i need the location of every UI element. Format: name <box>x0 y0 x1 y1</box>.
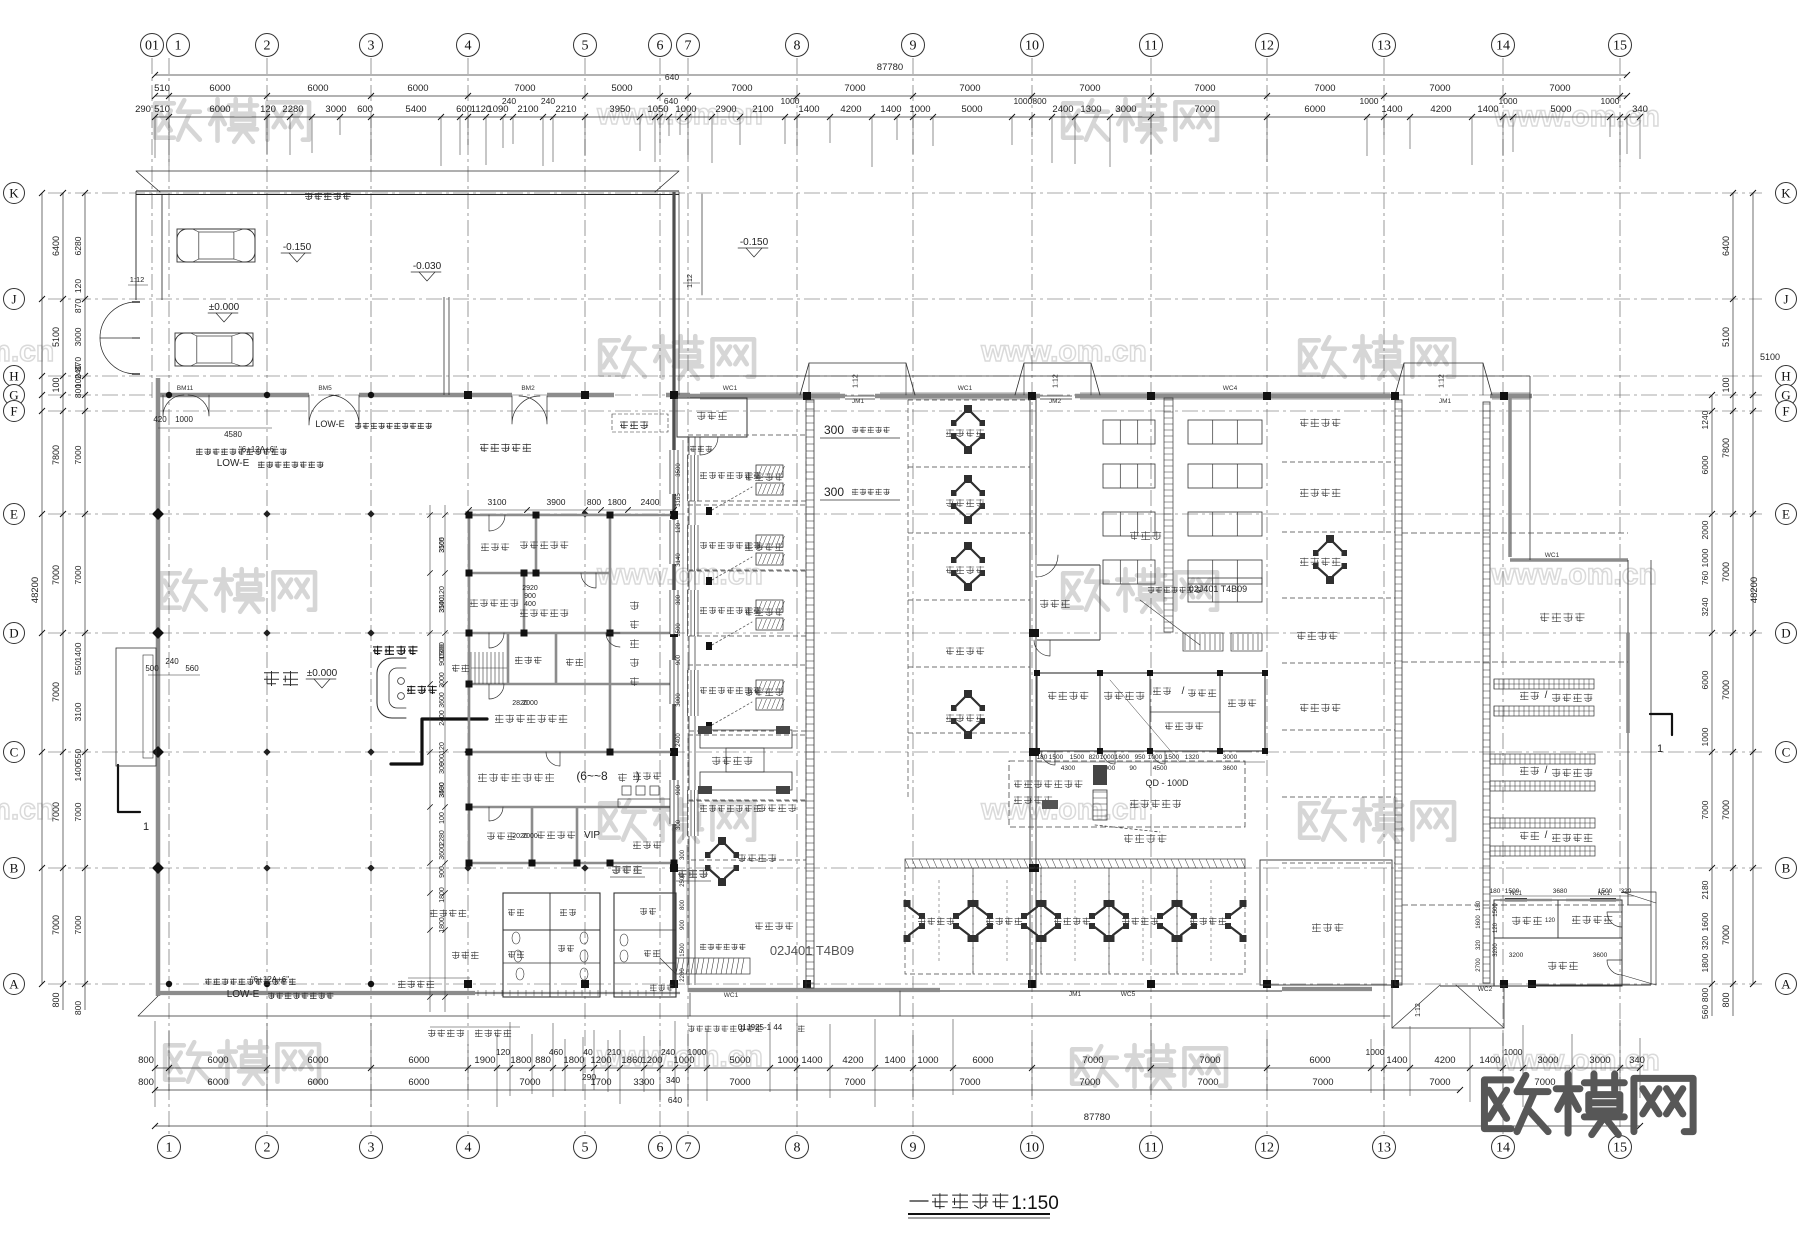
svg-text:VIP: VIP <box>584 830 600 841</box>
svg-text:180: 180 <box>1490 888 1501 895</box>
svg-text:6000: 6000 <box>1309 1055 1330 1066</box>
svg-text:4200: 4200 <box>1430 104 1451 115</box>
svg-text:2400: 2400 <box>676 733 682 747</box>
svg-text:6: 6 <box>657 1141 664 1156</box>
svg-text:3000: 3000 <box>1589 1055 1610 1066</box>
svg-text:JM1: JM1 <box>1069 991 1082 998</box>
svg-text:7000: 7000 <box>1079 83 1100 94</box>
svg-text:E: E <box>1782 507 1790 522</box>
svg-text:7000: 7000 <box>1721 800 1731 820</box>
svg-text:3200: 3200 <box>1509 952 1524 959</box>
svg-text:6400: 6400 <box>1721 236 1731 256</box>
svg-text:2500: 2500 <box>680 873 686 887</box>
svg-text:900: 900 <box>680 919 686 930</box>
svg-text:6000: 6000 <box>1700 455 1710 474</box>
svg-text:2000: 2000 <box>1700 520 1710 539</box>
svg-text:240: 240 <box>502 96 516 106</box>
svg-text:2200: 2200 <box>680 968 686 982</box>
svg-text:3000: 3000 <box>1537 1055 1558 1066</box>
svg-text:1000: 1000 <box>688 1047 707 1057</box>
svg-text:15: 15 <box>1613 1141 1627 1156</box>
svg-text:1500: 1500 <box>680 943 686 957</box>
svg-text:7000: 7000 <box>73 915 83 934</box>
svg-text:2400: 2400 <box>439 710 446 726</box>
svg-text:100: 100 <box>1721 377 1731 392</box>
svg-text:240: 240 <box>661 1047 675 1057</box>
svg-text:7000: 7000 <box>1721 680 1731 700</box>
svg-text:3600: 3600 <box>1593 952 1608 959</box>
svg-text:48200: 48200 <box>30 577 41 603</box>
svg-text:3200: 3200 <box>1493 943 1499 957</box>
svg-text:J: J <box>1783 292 1788 307</box>
svg-text:6000: 6000 <box>207 1077 228 1088</box>
svg-text:800: 800 <box>1721 992 1731 1007</box>
svg-text:14: 14 <box>1496 1141 1510 1156</box>
svg-text:550: 550 <box>73 661 83 675</box>
svg-text:510: 510 <box>154 83 170 94</box>
svg-text:6000: 6000 <box>1700 670 1710 689</box>
svg-text:760: 760 <box>1700 571 1710 585</box>
svg-text:3600: 3600 <box>439 692 446 708</box>
svg-text:1500: 1500 <box>1505 888 1520 895</box>
svg-text:QD - 100D: QD - 100D <box>1145 778 1189 788</box>
svg-text:1400: 1400 <box>1477 104 1498 115</box>
svg-text:400: 400 <box>524 601 536 608</box>
svg-text:2400: 2400 <box>1052 104 1073 115</box>
svg-text:A: A <box>9 977 19 992</box>
svg-text:460: 460 <box>549 1047 563 1057</box>
svg-text:7000: 7000 <box>73 445 83 464</box>
svg-text:6000: 6000 <box>407 83 428 94</box>
svg-text:87780: 87780 <box>1084 1112 1110 1123</box>
svg-text:1000: 1000 <box>1700 727 1710 746</box>
svg-text:300: 300 <box>824 423 844 437</box>
svg-text:800: 800 <box>73 1001 83 1015</box>
svg-text:/: / <box>1182 686 1185 697</box>
svg-text:7000: 7000 <box>73 565 83 584</box>
svg-text:±0.000: ±0.000 <box>209 302 240 313</box>
svg-text:90: 90 <box>1129 765 1137 772</box>
svg-text:900: 900 <box>676 784 682 795</box>
svg-text:120: 120 <box>260 104 276 115</box>
svg-text:1400: 1400 <box>73 762 83 781</box>
svg-text:2: 2 <box>264 39 271 54</box>
svg-text:300: 300 <box>824 485 844 499</box>
svg-text:1200: 1200 <box>641 1055 662 1066</box>
svg-text:J: J <box>11 292 16 307</box>
svg-text:H: H <box>9 369 18 384</box>
svg-text:120: 120 <box>439 742 446 754</box>
svg-text:1500: 1500 <box>1165 754 1180 761</box>
svg-text:1000: 1000 <box>1601 96 1620 106</box>
svg-text:340: 340 <box>1632 104 1648 115</box>
svg-text:11: 11 <box>1144 1141 1157 1156</box>
svg-text:-0.150: -0.150 <box>283 242 312 253</box>
svg-text:5400: 5400 <box>405 104 426 115</box>
svg-text:120: 120 <box>1493 922 1499 933</box>
svg-text:1:12: 1:12 <box>130 275 145 284</box>
svg-text:3500: 3500 <box>676 463 682 477</box>
svg-text:/: / <box>1545 690 1548 701</box>
svg-text:560: 560 <box>1700 1005 1710 1019</box>
svg-text:640: 640 <box>665 72 679 82</box>
svg-text:500: 500 <box>145 664 159 673</box>
svg-text:1: 1 <box>143 821 149 833</box>
svg-text:B: B <box>1782 861 1791 876</box>
svg-text:01J925-1 44: 01J925-1 44 <box>738 1023 783 1032</box>
svg-text:1500: 1500 <box>1070 754 1085 761</box>
svg-text:900: 900 <box>676 654 682 665</box>
svg-text:K: K <box>9 186 19 201</box>
svg-text:900: 900 <box>524 593 536 600</box>
svg-text:4: 4 <box>465 1141 472 1156</box>
svg-text:01: 01 <box>145 39 159 54</box>
svg-text:800: 800 <box>51 992 61 1007</box>
svg-text:2400: 2400 <box>641 497 660 507</box>
svg-text:340: 340 <box>666 1075 680 1085</box>
svg-text:1800: 1800 <box>439 887 446 903</box>
svg-text:2280: 2280 <box>282 104 303 115</box>
svg-text:180: 180 <box>1037 754 1048 761</box>
svg-text:6000: 6000 <box>1304 104 1325 115</box>
svg-text:-0.030: -0.030 <box>413 261 442 272</box>
svg-text:WC5: WC5 <box>1121 991 1136 998</box>
svg-text:6000: 6000 <box>972 1055 993 1066</box>
svg-text:6000: 6000 <box>307 1055 328 1066</box>
svg-text:11: 11 <box>1144 39 1157 54</box>
svg-text:300: 300 <box>676 594 682 605</box>
svg-text:7: 7 <box>685 1141 692 1156</box>
svg-text:100: 100 <box>439 812 446 824</box>
svg-text:1400: 1400 <box>798 104 819 115</box>
svg-text:120: 120 <box>1545 918 1556 924</box>
svg-text:6000: 6000 <box>207 1055 228 1066</box>
svg-text:2100: 2100 <box>752 104 773 115</box>
svg-text:900: 900 <box>439 654 446 666</box>
svg-text:3680: 3680 <box>1553 888 1568 895</box>
svg-text:1800: 1800 <box>563 1055 584 1066</box>
svg-text:1600: 1600 <box>1115 754 1130 761</box>
svg-text:40: 40 <box>583 1047 593 1057</box>
svg-text:8: 8 <box>794 39 801 54</box>
svg-text:1000: 1000 <box>777 1055 798 1066</box>
svg-text:7000: 7000 <box>1194 83 1215 94</box>
svg-text:7000: 7000 <box>1429 1077 1450 1088</box>
svg-text:4500: 4500 <box>1153 765 1168 772</box>
svg-text:7000: 7000 <box>1079 1077 1100 1088</box>
svg-text:13: 13 <box>1377 39 1391 54</box>
svg-text:120: 120 <box>439 586 446 598</box>
svg-text:1240: 1240 <box>1700 410 1710 429</box>
svg-text:3000: 3000 <box>73 327 83 346</box>
svg-text:3100: 3100 <box>488 497 507 507</box>
svg-text:1800: 1800 <box>1700 953 1710 972</box>
svg-text:1000800: 1000800 <box>1013 96 1046 106</box>
svg-text:300: 300 <box>676 819 682 830</box>
svg-text:10: 10 <box>1025 39 1039 54</box>
svg-text:3140: 3140 <box>676 553 682 567</box>
svg-text:2000: 2000 <box>522 700 538 707</box>
svg-text:1:12: 1:12 <box>1439 374 1446 388</box>
svg-text:7000: 7000 <box>731 83 752 94</box>
svg-text:120: 120 <box>496 1047 510 1057</box>
svg-text:7000: 7000 <box>1549 83 1570 94</box>
svg-text:H: H <box>1781 369 1790 384</box>
svg-text:D: D <box>1781 626 1790 641</box>
svg-text:340: 340 <box>1629 1055 1645 1066</box>
svg-text:1: 1 <box>175 39 182 54</box>
svg-text:1500: 1500 <box>1049 754 1064 761</box>
svg-text:6000: 6000 <box>307 1077 328 1088</box>
svg-text:1000: 1000 <box>1504 1047 1523 1057</box>
svg-text:7000: 7000 <box>51 565 61 585</box>
svg-text:5100: 5100 <box>1760 352 1780 362</box>
svg-text:BM11: BM11 <box>177 385 194 392</box>
svg-text:4200: 4200 <box>1434 1055 1455 1066</box>
svg-text:48200: 48200 <box>1749 577 1760 603</box>
svg-text:3600: 3600 <box>439 844 446 860</box>
svg-text:5: 5 <box>582 39 589 54</box>
svg-text:3000: 3000 <box>1223 754 1238 761</box>
svg-text:510: 510 <box>154 104 170 115</box>
svg-text:5: 5 <box>582 1141 589 1156</box>
svg-text:WC1: WC1 <box>723 385 738 392</box>
svg-text:om.cn: om.cn <box>0 793 54 826</box>
svg-text:): ) <box>636 769 640 783</box>
svg-text:7000: 7000 <box>73 802 83 821</box>
svg-text:1400: 1400 <box>1479 1055 1500 1066</box>
svg-text:1600: 1600 <box>1700 912 1710 931</box>
svg-text:950: 950 <box>1135 754 1146 761</box>
svg-text:7800: 7800 <box>51 445 61 465</box>
svg-text:BM5: BM5 <box>318 385 332 392</box>
svg-text:/: / <box>1545 765 1548 776</box>
svg-text:1:12: 1:12 <box>1415 1003 1422 1017</box>
svg-text:87780: 87780 <box>877 62 903 73</box>
svg-text:1000: 1000 <box>175 415 193 424</box>
svg-text:A: A <box>1781 977 1791 992</box>
svg-text:6280: 6280 <box>73 236 83 255</box>
svg-text:4300: 4300 <box>1061 765 1076 772</box>
svg-text:3: 3 <box>368 1141 375 1156</box>
svg-text:4580: 4580 <box>224 430 242 439</box>
svg-text:1000: 1000 <box>1366 1047 1385 1057</box>
svg-text:1800: 1800 <box>608 497 627 507</box>
svg-text:12: 12 <box>1260 1141 1274 1156</box>
svg-text:1: 1 <box>166 1141 173 1156</box>
svg-text:1400: 1400 <box>1381 104 1402 115</box>
svg-text:6000: 6000 <box>209 83 230 94</box>
svg-text:7000: 7000 <box>1312 1077 1333 1088</box>
svg-text:3600: 3600 <box>1223 765 1238 772</box>
svg-text:120: 120 <box>676 522 682 533</box>
svg-text:±0.000: ±0.000 <box>307 668 338 679</box>
svg-text:9: 9 <box>910 1141 917 1156</box>
svg-text:3: 3 <box>368 39 375 54</box>
svg-text:7000: 7000 <box>51 802 61 822</box>
svg-text:100: 100 <box>51 377 61 392</box>
svg-text:E: E <box>10 507 18 522</box>
svg-text:3900: 3900 <box>547 497 566 507</box>
svg-text:1800: 1800 <box>510 1055 531 1066</box>
svg-text:www.om.cn: www.om.cn <box>1490 558 1657 591</box>
svg-text:5000: 5000 <box>611 83 632 94</box>
svg-text:WC1: WC1 <box>724 992 739 999</box>
svg-text:7000: 7000 <box>1314 83 1335 94</box>
svg-text:6000: 6000 <box>408 1055 429 1066</box>
svg-text:4: 4 <box>465 39 472 54</box>
svg-text:1:12: 1:12 <box>853 374 860 388</box>
svg-text:9: 9 <box>910 39 917 54</box>
svg-text:LOW-E: LOW-E <box>227 989 260 1000</box>
svg-text:7000: 7000 <box>1429 83 1450 94</box>
svg-text:2180: 2180 <box>1700 880 1710 899</box>
svg-text:560: 560 <box>185 664 199 673</box>
svg-text:BM2: BM2 <box>521 385 535 392</box>
svg-text:7000: 7000 <box>1082 1055 1103 1066</box>
svg-text:800: 800 <box>138 1077 154 1088</box>
svg-text:7000: 7000 <box>959 83 980 94</box>
svg-text:"6+12A+6": "6+12A+6" <box>251 975 289 984</box>
svg-text:02J401 T4B09: 02J401 T4B09 <box>1189 584 1247 594</box>
svg-text:240: 240 <box>541 96 555 106</box>
svg-text:1000: 1000 <box>1100 754 1115 761</box>
svg-text:1500: 1500 <box>1493 903 1499 917</box>
svg-text:1000: 1000 <box>675 104 696 115</box>
svg-text:320: 320 <box>1700 936 1710 950</box>
svg-text:7000: 7000 <box>519 1077 540 1088</box>
svg-text:1400: 1400 <box>801 1055 822 1066</box>
svg-text:2700: 2700 <box>1476 958 1482 972</box>
svg-text:550: 550 <box>73 749 83 763</box>
svg-text:800: 800 <box>680 899 686 910</box>
svg-text:820: 820 <box>1089 754 1100 761</box>
svg-text:870: 870 <box>73 299 83 313</box>
svg-text:600: 600 <box>456 104 472 115</box>
svg-text:3950: 3950 <box>609 104 630 115</box>
svg-text:1: 1 <box>1657 743 1663 755</box>
svg-text:3100: 3100 <box>73 702 83 721</box>
svg-text:800: 800 <box>587 497 601 507</box>
svg-text:7000: 7000 <box>51 915 61 935</box>
svg-text:WC4: WC4 <box>1223 385 1238 392</box>
svg-text:2100: 2100 <box>517 104 538 115</box>
svg-text:7000: 7000 <box>1197 1077 1218 1088</box>
svg-text:02J401 T4B09: 02J401 T4B09 <box>770 943 854 958</box>
svg-text:C: C <box>1782 745 1791 760</box>
svg-text:2000: 2000 <box>522 833 538 840</box>
svg-text:6000: 6000 <box>209 104 230 115</box>
svg-text:F: F <box>10 404 17 419</box>
svg-text:WC1: WC1 <box>958 385 973 392</box>
svg-text:7000: 7000 <box>959 1077 980 1088</box>
svg-text:1400: 1400 <box>1386 1055 1407 1066</box>
svg-text:5100: 5100 <box>51 327 61 347</box>
svg-text:/: / <box>1545 830 1548 841</box>
svg-text:7000: 7000 <box>1721 562 1731 582</box>
svg-text:1860: 1860 <box>621 1055 642 1066</box>
svg-text:120: 120 <box>73 279 83 293</box>
svg-text:7000: 7000 <box>844 83 865 94</box>
svg-text:2280: 2280 <box>439 830 446 846</box>
svg-text:420: 420 <box>153 415 167 424</box>
svg-text:1500: 1500 <box>676 623 682 637</box>
svg-text:6: 6 <box>657 39 664 54</box>
svg-text:320: 320 <box>1476 939 1482 950</box>
svg-text:7000: 7000 <box>1700 800 1710 819</box>
svg-text:1000: 1000 <box>1499 96 1518 106</box>
svg-text:300: 300 <box>439 762 446 774</box>
svg-text:WC2: WC2 <box>1478 986 1493 993</box>
svg-text:3000: 3000 <box>439 672 446 688</box>
svg-text:1400: 1400 <box>884 1055 905 1066</box>
svg-text:LOW-E: LOW-E <box>315 419 344 429</box>
svg-text:1900: 1900 <box>474 1055 495 1066</box>
svg-text:3165: 3165 <box>439 537 446 553</box>
svg-text:1600: 1600 <box>1476 915 1482 929</box>
svg-text:(6~~8: (6~~8 <box>576 769 608 783</box>
svg-text:7800: 7800 <box>1721 438 1731 458</box>
svg-text:3165: 3165 <box>676 493 682 507</box>
svg-text:5000: 5000 <box>961 104 982 115</box>
svg-text:1500: 1500 <box>1598 888 1613 895</box>
svg-text:14: 14 <box>1496 39 1510 54</box>
svg-text:12: 12 <box>1260 39 1274 54</box>
svg-text:7000: 7000 <box>51 682 61 702</box>
svg-text:4200: 4200 <box>842 1055 863 1066</box>
svg-text:3140: 3140 <box>439 597 446 613</box>
svg-text:-0.150: -0.150 <box>740 237 769 248</box>
svg-text:800: 800 <box>138 1055 154 1066</box>
svg-text:800: 800 <box>1700 988 1710 1002</box>
svg-text:4200: 4200 <box>840 104 861 115</box>
svg-text:7000: 7000 <box>514 83 535 94</box>
svg-text:F: F <box>1782 404 1789 419</box>
svg-text:290: 290 <box>135 104 151 115</box>
svg-text:1400: 1400 <box>73 642 83 661</box>
svg-text:5000: 5000 <box>1550 104 1571 115</box>
svg-text:1000: 1000 <box>1360 96 1379 106</box>
svg-text:3000: 3000 <box>325 104 346 115</box>
svg-text:3480: 3480 <box>439 782 446 798</box>
svg-text:900: 900 <box>439 866 446 878</box>
svg-text:5100: 5100 <box>1721 327 1731 347</box>
svg-text:1:12: 1:12 <box>687 274 694 288</box>
svg-text:5000: 5000 <box>729 1055 750 1066</box>
svg-text:7000: 7000 <box>1721 925 1731 945</box>
svg-text:7000: 7000 <box>844 1077 865 1088</box>
svg-text:1000: 1000 <box>917 1055 938 1066</box>
svg-text:15: 15 <box>1613 39 1627 54</box>
svg-text:800: 800 <box>73 384 83 398</box>
svg-text:1:150: 1:150 <box>1011 1193 1059 1214</box>
svg-text:1000: 1000 <box>909 104 930 115</box>
svg-text:8: 8 <box>794 1141 801 1156</box>
svg-text:www.om.cn: www.om.cn <box>980 793 1147 826</box>
svg-text:180: 180 <box>1476 900 1482 911</box>
svg-text:240: 240 <box>165 657 179 666</box>
svg-text:13: 13 <box>1377 1141 1391 1156</box>
svg-text:640: 640 <box>664 96 678 106</box>
svg-text:10: 10 <box>1025 1141 1039 1156</box>
svg-text:6000: 6000 <box>307 83 328 94</box>
svg-text:D: D <box>9 626 18 641</box>
svg-text:1300: 1300 <box>1080 104 1101 115</box>
svg-text:JM1: JM1 <box>1439 398 1452 405</box>
svg-text:3000: 3000 <box>676 693 682 707</box>
svg-text:6000: 6000 <box>408 1077 429 1088</box>
svg-text:1000: 1000 <box>1148 754 1163 761</box>
